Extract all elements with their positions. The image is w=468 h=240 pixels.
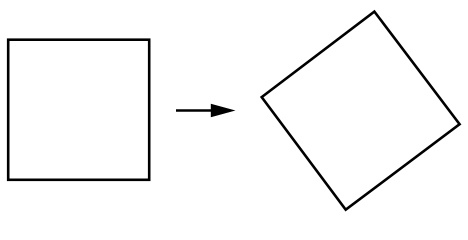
square (original, axis-aligned)	[8, 40, 149, 180]
square (rotated ~37 degrees)	[262, 12, 460, 210]
arrow	[176, 104, 236, 117]
